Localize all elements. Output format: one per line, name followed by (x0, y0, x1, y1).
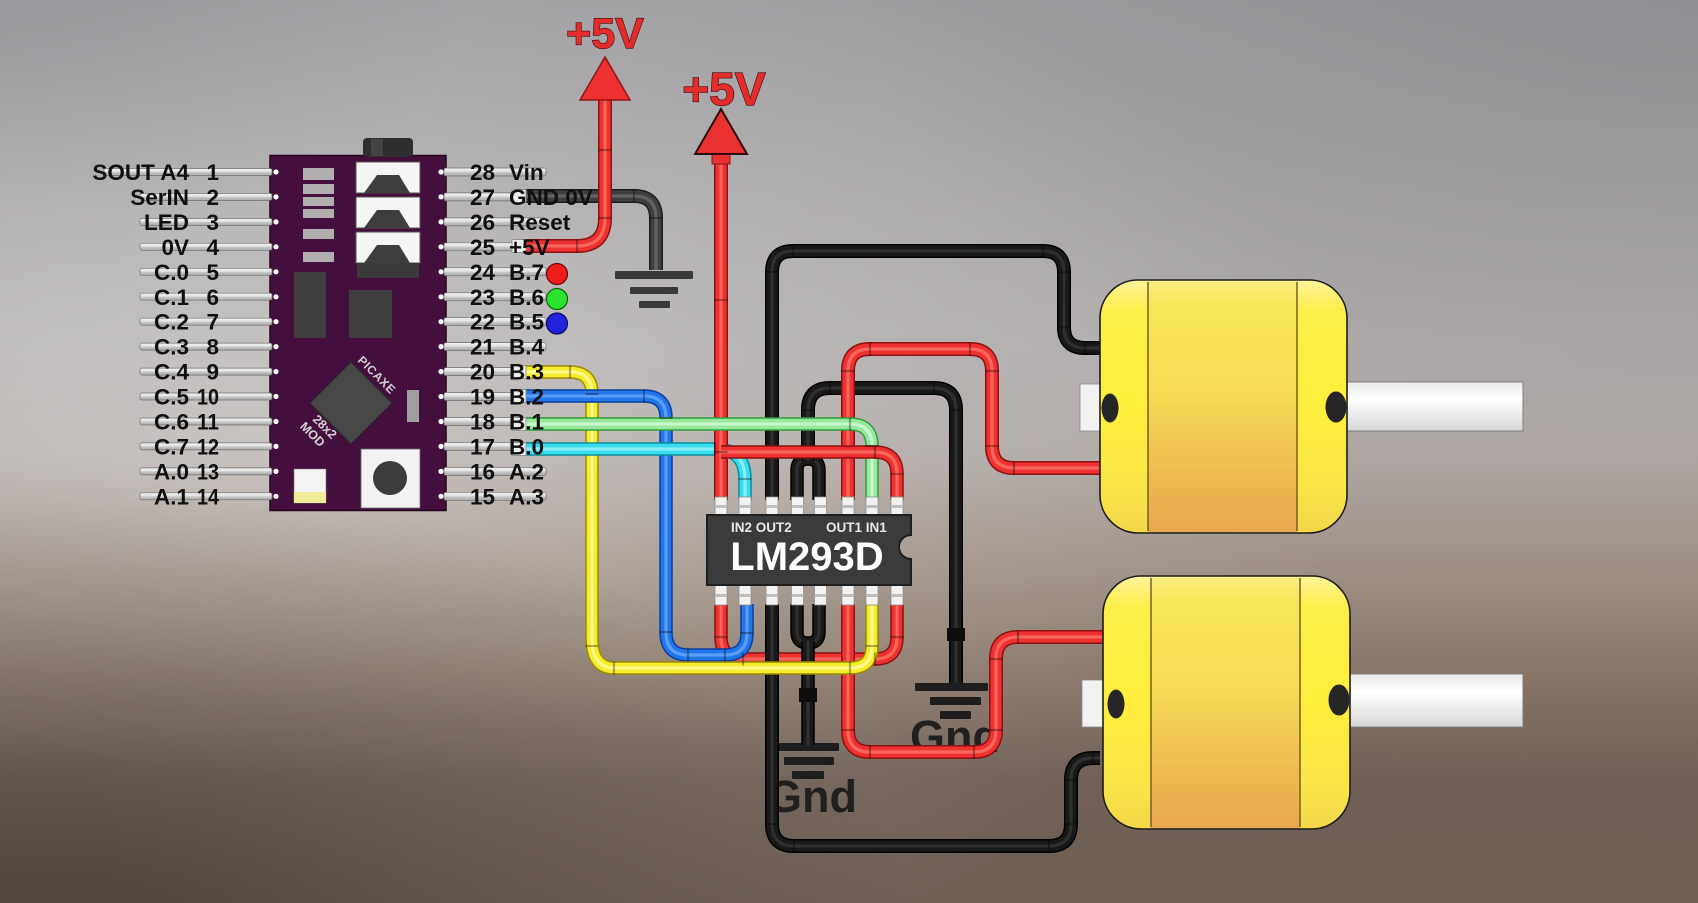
pin holes (273, 169, 443, 499)
svg-text:21: 21 (470, 335, 495, 360)
svg-text:2: 2 (206, 185, 219, 210)
wire red OUT4 to motor M2 (848, 604, 1105, 752)
svg-text:C.1: C.1 (154, 285, 189, 310)
svg-text:C.0: C.0 (154, 260, 189, 285)
motor M2 shaft (1349, 674, 1523, 727)
program jack barrel (363, 138, 413, 157)
small resistor (407, 390, 419, 422)
svg-text:B.3: B.3 (509, 360, 544, 385)
svg-text:Vin: Vin (509, 160, 544, 185)
PICAXE 28X2 MOD board U2 (270, 156, 446, 511)
svg-text:13: 13 (197, 459, 219, 484)
wire red +5V branch to pin 9 of U1 (721, 452, 897, 500)
svg-text:26: 26 (470, 210, 495, 235)
motor M2 body (1103, 576, 1350, 829)
svg-text:SerIN: SerIN (130, 185, 189, 210)
ground symbol GND 0V (615, 271, 693, 308)
svg-text:3: 3 (206, 210, 219, 235)
svg-text:23: 23 (470, 285, 495, 310)
svg-text:A.3: A.3 (509, 484, 544, 509)
motor M1 screws (1102, 394, 1119, 423)
wire red +5V riser to pin 16 of U1 (714, 160, 728, 500)
wire GND 0V wire from pin 27 (516, 196, 656, 270)
wire black gnd drop to Gnd1 (801, 641, 815, 745)
svg-text:C.4: C.4 (154, 360, 190, 385)
ground Gnd2 (right) (915, 683, 988, 719)
svg-text:12: 12 (197, 434, 219, 459)
svg-text:1: 1 (206, 160, 219, 185)
svg-text:OUT1 IN1: OUT1 IN1 (826, 520, 887, 535)
svg-text:C.6: C.6 (154, 410, 189, 435)
pipe joint rings (570, 150, 1093, 853)
svg-text:Reset: Reset (509, 210, 571, 235)
svg-text:A.1: A.1 (154, 484, 189, 509)
svg-text:7: 7 (206, 310, 219, 335)
svg-text:16: 16 (470, 459, 495, 484)
svg-text:6: 6 (206, 285, 219, 310)
svg-text:GND 0V: GND 0V (509, 185, 593, 210)
motor M1 shaft (1346, 382, 1523, 431)
pushbutton (361, 449, 420, 508)
+5V arrow 1 (580, 57, 630, 100)
svg-text:B.2: B.2 (509, 385, 544, 410)
svg-text:C.3: C.3 (154, 335, 189, 360)
svg-text:+5V: +5V (509, 235, 550, 260)
svg-text:LED: LED (144, 210, 189, 235)
svg-text:C.5: C.5 (154, 385, 189, 410)
svg-text:10: 10 (197, 385, 219, 410)
svg-text:14: 14 (197, 484, 219, 509)
LED indicator B.5 (547, 313, 568, 334)
svg-text:B.7: B.7 (509, 260, 544, 285)
svg-text:B.5: B.5 (509, 310, 544, 335)
LED indicator B.6 (547, 289, 568, 310)
wire B.0 cyan from pin 17 (516, 449, 745, 500)
svg-text:C.2: C.2 (154, 310, 189, 335)
motor M2 screws (1108, 690, 1125, 719)
svg-text:28: 28 (470, 160, 495, 185)
IC block 2 (349, 290, 392, 338)
pin labels (92, 160, 592, 509)
motor M1 tab (1080, 384, 1101, 431)
junction block on gnd drop (799, 688, 817, 702)
svg-text:5: 5 (206, 260, 219, 285)
ground Gnd1 (left) (767, 743, 839, 779)
svg-text:27: 27 (470, 185, 495, 210)
motor M1 body (1100, 280, 1347, 533)
svg-text:9: 9 (206, 360, 219, 385)
svg-text:Gnd: Gnd (767, 771, 857, 822)
svg-text:0V: 0V (161, 235, 189, 260)
svg-text:18: 18 (470, 410, 495, 435)
svg-text:+5V: +5V (682, 63, 765, 115)
wire yellow to pin 6 of U1 (592, 604, 872, 668)
svg-text:20: 20 (470, 360, 495, 385)
IC block 1 (294, 272, 326, 338)
wire black jumper top pins 12-13 (797, 459, 819, 500)
svg-text:11: 11 (197, 410, 219, 435)
svg-text:SOUT A4: SOUT A4 (92, 160, 189, 185)
svg-text:15: 15 (470, 484, 495, 509)
pin leads (104, 168, 546, 500)
svg-text:17: 17 (470, 434, 495, 459)
wire red jumper U pins1-8 of U1 (721, 604, 897, 659)
wire black jumper bottom pins 4-5 (797, 604, 819, 643)
svg-text:C.7: C.7 (154, 434, 189, 459)
jack socket contacts (356, 162, 420, 193)
svg-text:LM293D: LM293D (730, 535, 883, 579)
svg-text:4: 4 (206, 235, 219, 260)
svg-text:A.2: A.2 (509, 459, 544, 484)
svg-text:22: 22 (470, 310, 495, 335)
wire red +5V wire from pin 25 (516, 98, 605, 246)
wire black OUT3 to motor M2 (772, 604, 1100, 846)
resistor bars (303, 168, 334, 180)
svg-text:8: 8 (206, 335, 219, 360)
wire red OUT1 to motor M1 (848, 349, 1102, 500)
LED indicator B.7 (547, 264, 568, 285)
svg-text:A.0: A.0 (154, 459, 189, 484)
svg-text:+5V: +5V (566, 10, 644, 58)
svg-text:B.4: B.4 (509, 335, 545, 360)
svg-text:25: 25 (470, 235, 495, 260)
svg-text:B.1: B.1 (509, 410, 544, 435)
svg-text:19: 19 (470, 385, 495, 410)
LED component (294, 469, 326, 503)
svg-text:IN2 OUT2: IN2 OUT2 (731, 520, 792, 535)
svg-text:B.0: B.0 (509, 434, 544, 459)
wire B.1 green from pin 18 (516, 424, 872, 500)
junction block on gnd wire (947, 628, 965, 641)
motor M2 tab (1082, 680, 1104, 727)
wire B.3 yellow from pin 20 (516, 372, 592, 640)
wire B.2 blue from pin 19 (516, 396, 747, 655)
PICAXE chip (rotated) (310, 362, 392, 444)
svg-text:B.6: B.6 (509, 285, 544, 310)
wire black gnd wire to Gnd2 (808, 388, 956, 684)
svg-text:24: 24 (470, 260, 496, 285)
LM293D driver U1 (715, 497, 903, 605)
wire sleeves (512, 190, 526, 456)
+5V arrow 2 (712, 154, 730, 164)
wire black OUT2 to motor M1 (772, 251, 1102, 500)
